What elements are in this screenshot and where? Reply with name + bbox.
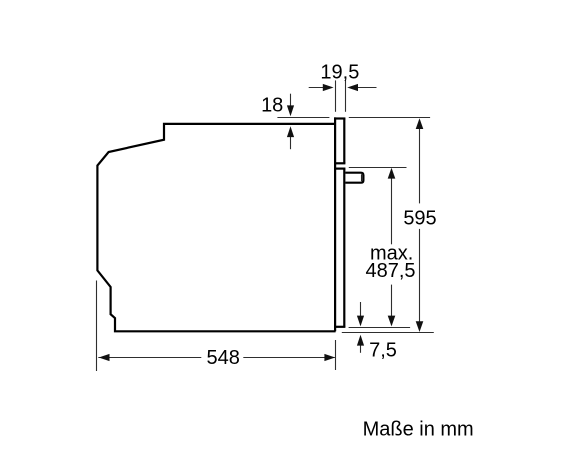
svg-text:19,5: 19,5 xyxy=(320,61,359,83)
svg-text:18: 18 xyxy=(261,95,283,117)
svg-text:487,5: 487,5 xyxy=(365,260,415,282)
svg-text:7,5: 7,5 xyxy=(369,339,397,361)
svg-text:548: 548 xyxy=(207,347,240,369)
svg-text:595: 595 xyxy=(403,208,436,230)
svg-text:Maße in mm: Maße in mm xyxy=(363,418,474,440)
